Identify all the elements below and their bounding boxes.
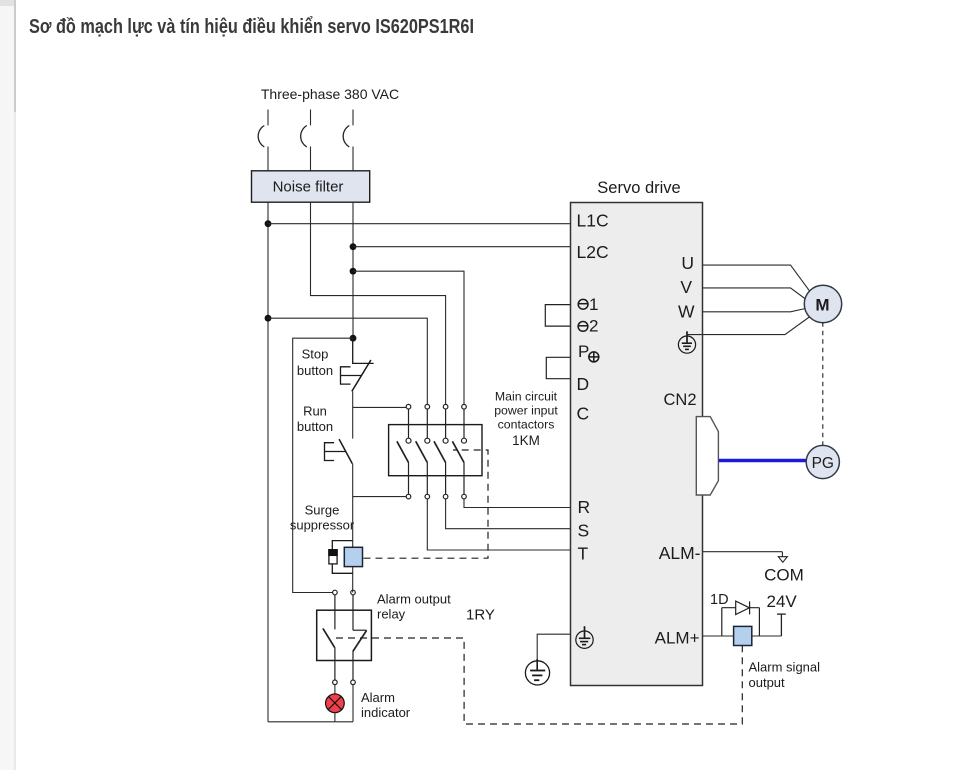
svg-text:24V: 24V [767,592,798,611]
wire lamp bottom [334,712,336,722]
svg-text:Run: Run [303,404,327,419]
wire phase3 below filter [352,202,354,338]
wire phase1 to contactor pole2 [268,318,427,404]
label Three-phase 380 VAC [261,86,399,102]
page title [29,16,474,39]
wire phase2 to filter [310,147,312,172]
noise filter box [252,171,370,202]
surge suppressor branch [329,541,353,574]
wire relay right bottom [352,685,354,722]
svg-text:Three-phase 380 VAC: Three-phase 380 VAC [261,86,399,102]
relay 1RY box [317,610,372,660]
svg-text:Noise filter: Noise filter [273,179,344,196]
svg-text:C: C [577,404,590,424]
external ground symbol [525,659,549,685]
svg-text:Stop: Stop [302,347,329,362]
encoder PG [806,445,839,478]
wire phase2 top [310,110,312,126]
wire V to motor [703,288,806,299]
label 1RY [466,607,495,624]
pin U [681,253,694,273]
label Main circuit power input contactors 1KM [494,390,558,449]
wire phase1 top [267,110,269,126]
pin L1C [577,211,609,231]
wire phase3 to contactor pole4 [353,271,464,404]
svg-text:button: button [297,363,333,378]
pin S [578,521,590,541]
pin ALM- [659,543,701,563]
svg-text:power input: power input [494,404,558,418]
svg-text:1D: 1D [710,592,729,608]
pin V [680,277,692,297]
svg-text:indicator: indicator [361,705,411,720]
connector CN2 shell [696,417,718,495]
pin P+ [578,342,599,362]
left scrollbar strip [0,0,14,770]
relay contact right [353,595,367,680]
pin ALM+ [655,629,700,648]
mechanical link dashes 1RY [336,638,742,724]
label Stop button [297,347,333,379]
label 1D [710,592,729,608]
mechanical link dashes 1KM [364,450,489,558]
node pole2 feed junction [265,315,272,322]
encoder cable (blue) [719,459,807,463]
breaker arc phase3 [343,126,349,148]
pin W [678,302,695,322]
wire phase1 to filter [267,147,269,172]
contactor 1KM box [389,425,482,476]
ground symbol drive bottom [576,626,593,648]
wire run to coil [352,464,354,593]
breaker arc phase1 [258,126,264,148]
pin T [578,544,589,564]
contactor pole4 [452,404,466,499]
svg-text:U: U [681,253,694,273]
svg-text:COM: COM [764,566,804,585]
svg-text:2: 2 [589,317,598,336]
wire ALM- to COM [703,551,783,553]
wire PE to external ground [537,634,570,661]
svg-text:contactors: contactors [498,418,555,432]
wire holding branch [293,338,353,592]
wire to L1C [268,223,571,225]
svg-text:PG: PG [812,455,834,472]
svg-text:W: W [678,302,695,322]
label Servo drive [597,179,680,197]
motor M [804,285,841,322]
svg-text:Main circuit: Main circuit [495,390,558,404]
svg-text:1: 1 [589,295,598,314]
wire ground to motor [687,317,810,335]
node L2C junction [350,243,357,250]
wire pole3 to S [446,499,571,529]
label COM [764,566,804,585]
svg-text:L1C: L1C [577,211,609,231]
arrow to COM [778,552,787,563]
svg-text:S: S [578,521,590,541]
relay contact left [323,595,335,680]
label Run button [297,404,333,435]
wire phase1 below filter [267,202,269,722]
pushbutton run (NO) [325,439,353,464]
jumper terminals 1-2 [545,305,570,327]
contactor pole1 [397,404,411,499]
svg-text:Alarm output: Alarm output [377,592,451,607]
jumper terminals P-D [546,357,570,378]
relay contact terminals top [333,590,356,595]
wire ALM+ [703,635,782,637]
24V terminal [777,614,786,636]
label CN2 [664,391,697,409]
svg-text:button: button [297,419,333,434]
wire pole4 to R [464,499,571,508]
svg-text:Surge: Surge [305,503,340,518]
wire phase3 top [352,110,354,126]
svg-text:ALM-: ALM- [659,543,701,563]
contactor pole3 [434,404,448,499]
wire phase3 to filter [352,147,354,172]
svg-text:ALM+: ALM+ [655,629,700,648]
svg-text:relay: relay [377,607,406,622]
ground symbol UVW [678,331,695,353]
wire pole2 to T [427,499,570,550]
pin R [578,497,591,517]
contactor coil 1KM (blue square) [344,547,362,566]
pin D [577,374,590,394]
pin L2C [577,242,609,262]
label Alarm output relay [377,592,451,622]
node L1C junction [265,220,272,227]
pin minus1 [578,295,598,314]
alarm indicator lamp [326,694,345,713]
contactor pole2 [416,404,430,499]
svg-text:Servo drive: Servo drive [597,179,680,197]
svg-text:Alarm: Alarm [361,690,395,705]
pushbutton stop (NC) [341,338,374,391]
label Alarm signal output [749,660,821,691]
wire to L2C [353,246,571,248]
svg-text:V: V [680,277,692,297]
svg-text:D: D [577,374,590,394]
wire bottom return [268,721,353,723]
node stop-button junction [350,335,357,342]
wire aux contact bottom [353,496,406,498]
svg-text:Alarm signal: Alarm signal [749,660,821,675]
svg-text:1KM: 1KM [512,433,540,448]
svg-text:M: M [815,296,829,315]
label Alarm indicator [361,690,411,720]
svg-text:L2C: L2C [577,242,609,262]
svg-text:1RY: 1RY [466,607,495,624]
label 24V [767,592,798,611]
breaker arc phase2 [301,126,307,148]
diode 1D [722,601,760,614]
wire stop to run [352,391,354,438]
svg-text:T: T [578,544,589,564]
pin C [577,404,590,424]
svg-text:output: output [749,675,786,690]
wire phase2 below filter [311,202,446,405]
label Surge suppressor [290,503,355,533]
svg-text:P: P [578,342,589,361]
svg-text:CN2: CN2 [664,391,697,409]
node pole4 feed junction [350,268,357,275]
relay coil 1RY (blue square) [734,626,752,645]
svg-text:R: R [578,497,591,517]
pin minus2 [578,317,598,336]
wire lamp top [334,685,336,694]
wire W to motor [703,309,806,312]
dashed link motor to encoder [822,322,824,445]
svg-text:suppressor: suppressor [290,518,355,533]
wire aux contact top [353,406,407,408]
diode loop [721,608,723,636]
wire U to motor [703,265,811,292]
servo drive box [571,203,703,686]
relay contact terminals bottom [333,680,356,685]
